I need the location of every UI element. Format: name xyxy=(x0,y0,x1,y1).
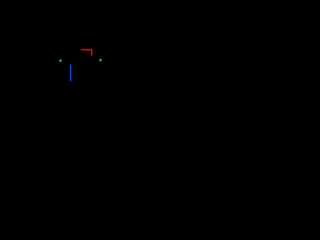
background xyxy=(0,0,160,120)
blue vertical line glow xyxy=(70,64,72,81)
green dot left xyxy=(58,58,62,62)
blue vertical line xyxy=(70,65,72,82)
red elbow line glow xyxy=(81,50,92,56)
red elbow line xyxy=(81,50,92,56)
green dot right xyxy=(98,58,102,62)
